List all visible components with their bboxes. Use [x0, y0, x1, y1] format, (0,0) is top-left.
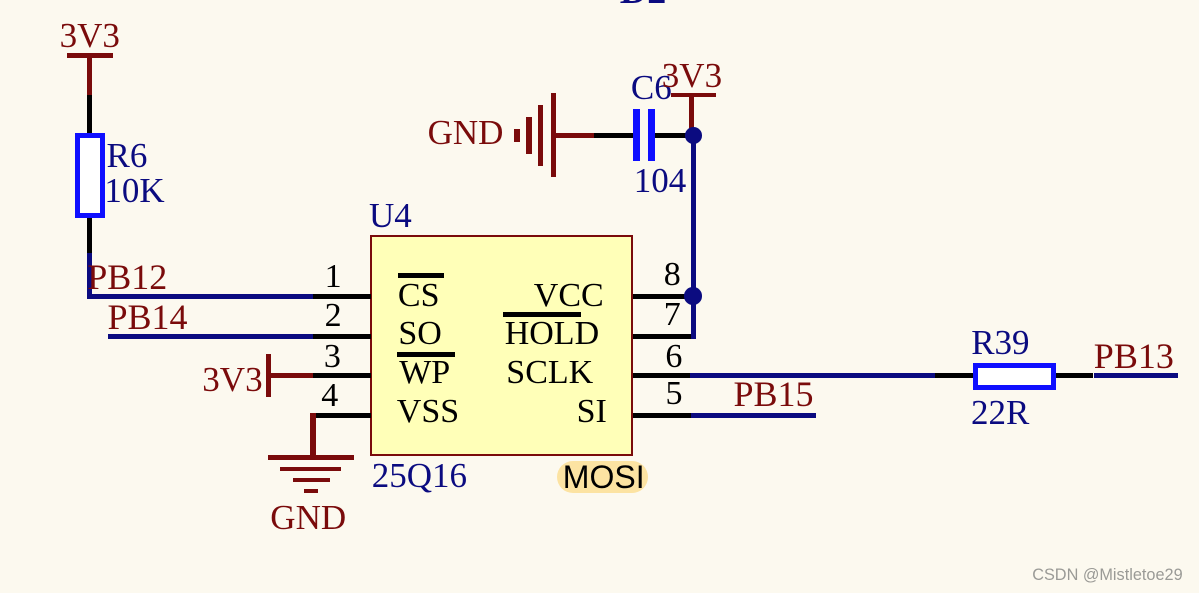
pin number 6	[665, 340, 682, 374]
pin number 1	[325, 260, 342, 294]
wire pin4 to GND maroon vertical	[310, 413, 315, 456]
ground GND label (bottom)	[270, 500, 346, 535]
ground bar 1 (bottom GND)	[268, 455, 354, 460]
wire PB12 horizontal navy	[87, 294, 313, 299]
resistor R39 value 22R	[971, 395, 1029, 430]
pin number 4	[321, 379, 338, 413]
pin label CS	[398, 279, 440, 313]
pin label VSS	[397, 395, 459, 429]
wire PB15 navy	[691, 413, 816, 418]
pin label SI	[577, 395, 607, 429]
net label PB14	[108, 299, 188, 335]
pin label HOLD	[505, 317, 599, 351]
ground bar 3 (C6 GND, rotated)	[526, 117, 532, 155]
pin label VCC	[534, 279, 604, 313]
wire C6 to junction black	[655, 133, 686, 138]
pin label HOLD overline	[503, 312, 581, 317]
wire pin3 stub black	[313, 373, 371, 378]
wire PB12 vertical navy	[87, 253, 92, 299]
watermark CSDN @Mistletoe29	[1032, 567, 1182, 583]
net label D2 (cut off at top)	[620, 0, 666, 10]
ground bar 2 (bottom GND)	[280, 467, 341, 471]
power 3V3 bar (top-left)	[67, 53, 113, 58]
pin number 3	[324, 340, 341, 374]
resistor R6 body	[75, 133, 105, 218]
wire GND to C6 black	[594, 133, 633, 138]
net highlight MOSI pill	[557, 461, 648, 494]
capacitor C6 designator	[631, 70, 672, 105]
wire R39 to PB13 navy	[1094, 373, 1179, 378]
junction dot at C6/3V3	[685, 127, 702, 144]
wire 3V3 stem maroon (top-left)	[87, 58, 92, 95]
pin label SO	[398, 317, 441, 351]
wire pin4 horizontal black	[313, 413, 371, 418]
net label PB13	[1094, 338, 1174, 374]
wire pin7 stub black	[633, 334, 691, 339]
ground bar 4 (bottom GND)	[304, 489, 317, 493]
ground bar 2 (C6 GND, rotated)	[538, 105, 544, 167]
power 3V3 label (pin 3)	[202, 362, 262, 397]
pin label SCLK	[506, 356, 593, 390]
wire 3V3 to pin3 maroon	[268, 373, 313, 378]
power 3V3 label (top-left)	[60, 18, 120, 53]
IC U4 body	[370, 235, 633, 456]
ground bar 1 (C6 GND, rotated)	[551, 93, 557, 177]
pin number 8	[664, 258, 681, 292]
ground bar 4 (C6 GND, rotated)	[514, 129, 520, 143]
pin label WP overline	[397, 352, 455, 357]
capacitor C6 right plate	[648, 109, 655, 161]
power 3V3 bar (pin 3)	[266, 354, 271, 397]
resistor R6 value 10K	[104, 173, 164, 208]
IC U4 value 25Q16	[372, 458, 467, 493]
wire pin2 stub black	[313, 334, 371, 339]
capacitor C6 left plate	[633, 109, 640, 161]
net label PB12	[87, 259, 167, 295]
junction dot at pin 8	[684, 287, 702, 305]
wire vertical navy junction to pin7	[691, 133, 696, 339]
net label MOSI	[563, 461, 645, 493]
resistor R39 designator	[971, 325, 1029, 360]
wire GND stub maroon	[556, 133, 594, 138]
wire pin1 stub black	[313, 294, 371, 299]
wire 3V3 stem maroon (top-right)	[689, 97, 694, 130]
wire R39 left black	[935, 373, 972, 378]
wire pin6 stub black	[633, 373, 690, 378]
power 3V3 bar (top-right)	[671, 93, 716, 98]
pin label CS overline	[398, 273, 444, 278]
wire 3V3 to R6 black	[87, 95, 92, 133]
wire pin6 to R39 navy	[690, 373, 936, 378]
IC U4 designator	[369, 198, 412, 233]
wire R39 right black	[1056, 373, 1093, 378]
ground GND label (near C6)	[428, 115, 504, 150]
pin number 2	[325, 299, 342, 333]
resistor R6 designator	[107, 138, 148, 173]
wire pin8 stub black	[633, 294, 685, 299]
power 3V3 label (top-right)	[662, 58, 722, 93]
wire PB14 horizontal navy	[108, 334, 314, 339]
ground bar 3 (bottom GND)	[293, 478, 330, 482]
capacitor C6 value 104	[634, 163, 687, 198]
pin number 5	[666, 377, 683, 411]
pin label WP	[399, 356, 450, 390]
wire pin5 stub black	[633, 413, 691, 418]
wire R6 to PB12 black	[87, 218, 92, 253]
resistor R39 body	[973, 363, 1057, 390]
net label PB15	[734, 376, 814, 412]
pin number 7	[664, 298, 681, 332]
